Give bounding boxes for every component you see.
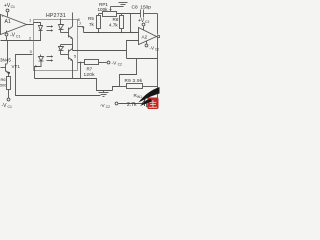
LED D1: [34, 23, 41, 26]
wire LED1 return rail: [1, 40, 34, 42]
svg-text:R5: R5: [88, 16, 94, 21]
wire pot right to C8 node: [117, 13, 141, 15]
svg-text:C2: C2: [106, 105, 110, 109]
wire output column: [157, 59, 159, 101]
rheostat RW1 wiper arrow: [142, 99, 146, 106]
wire R7 node down: [80, 63, 82, 79]
wire VT1 collector drop: [7, 41, 9, 63]
transistor VT1: [7, 63, 8, 65]
LED D2: [40, 55, 42, 57]
svg-text:120k: 120k: [84, 72, 96, 78]
svg-text:C1: C1: [11, 5, 15, 9]
op-amp A2: [139, 28, 157, 45]
transistor Q1: [61, 32, 69, 34]
node A2 output terminal: [157, 35, 159, 37]
logo watermark swoosh: [139, 87, 160, 103]
resistor R5: [98, 14, 100, 16]
resistor R6: [7, 77, 11, 90]
pin 8 stub: [72, 13, 74, 19]
wire feedback ladder: [127, 58, 158, 60]
svg-text:R9 3.9k: R9 3.9k: [125, 78, 143, 83]
svg-text:R7: R7: [87, 66, 93, 71]
node -VC1 terminal lower: [7, 98, 10, 101]
svg-text:4.7k: 4.7k: [109, 22, 118, 27]
capacitor C8: [140, 10, 142, 18]
wire ground rail to R9: [113, 87, 120, 91]
resistor R8: [121, 14, 123, 16]
resistor R9: [120, 86, 127, 88]
wire A2 inverting input: [127, 41, 139, 59]
node -VC2 terminal A2: [146, 41, 148, 45]
svg-text:7k: 7k: [89, 22, 95, 27]
optocoupler U1 box HP2731: [34, 20, 78, 71]
logo red stamp: [147, 98, 158, 110]
svg-text:-V: -V: [2, 103, 8, 109]
svg-text:C1: C1: [8, 105, 12, 109]
node +VC2 terminal: [142, 23, 145, 26]
svg-text:VT1: VT1: [12, 64, 21, 69]
node -VC2 terminal bottom: [115, 102, 118, 105]
svg-text:A1: A1: [5, 19, 11, 25]
svg-text:W1: W1: [137, 95, 142, 99]
resistor R7: [78, 62, 85, 64]
photodiode D4: [60, 45, 62, 47]
wire common rail to A2 input: [84, 32, 139, 34]
svg-text:C1: C1: [16, 35, 20, 39]
svg-text:HP2731: HP2731: [46, 13, 66, 19]
node junction R5-rail: [98, 32, 99, 33]
photodiode D3: [60, 19, 62, 25]
node +VC1 terminal: [6, 9, 9, 12]
svg-text:100k: 100k: [98, 7, 109, 12]
svg-text:C2: C2: [155, 48, 159, 52]
light arrows channel 2: [47, 56, 53, 58]
svg-text:R6: R6: [1, 77, 7, 82]
svg-text:R8: R8: [113, 17, 119, 22]
wire left loop to LED2: [16, 55, 101, 96]
wire node down to rail: [130, 14, 132, 33]
pin 7 wire: [78, 26, 84, 28]
ground bottom: [103, 91, 105, 93]
wire LED2 to ground loop: [35, 79, 113, 91]
node junction R8-rail: [121, 32, 122, 33]
svg-text:-V: -V: [10, 33, 16, 39]
node junction pot-rail: [131, 32, 132, 33]
wire A1 output: [27, 23, 34, 25]
node -VC2 terminal R7: [107, 61, 110, 64]
wire pin5 to A2 input with hop: [73, 50, 127, 52]
wire A2 output: [157, 36, 158, 38]
svg-text:3N45: 3N45: [0, 58, 11, 63]
svg-text:C2: C2: [118, 63, 122, 67]
junction R7 left: [80, 62, 82, 64]
light arrows channel 1: [47, 26, 53, 28]
svg-text:-V: -V: [112, 60, 118, 66]
svg-text:500: 500: [0, 84, 6, 88]
svg-text:C2: C2: [145, 20, 149, 24]
rheostat RW1: [147, 101, 158, 107]
svg-text:2.7k: 2.7k: [127, 102, 137, 108]
node -VC1 terminal upper: [6, 31, 8, 33]
wire pin6 collector: [61, 44, 73, 46]
potentiometer RP1: [99, 13, 103, 15]
ground top: [122, 6, 124, 8]
transistor Q2: [61, 54, 69, 56]
op-amp A1: [1, 15, 27, 35]
svg-text:+: +: [2, 15, 4, 19]
svg-text:A2: A2: [142, 35, 148, 40]
svg-text:+V: +V: [138, 18, 145, 24]
svg-text:C8 150p: C8 150p: [132, 5, 152, 11]
wire C8 right / output feedback drop: [157, 14, 159, 35]
wire A1 positive supply: [7, 13, 9, 17]
